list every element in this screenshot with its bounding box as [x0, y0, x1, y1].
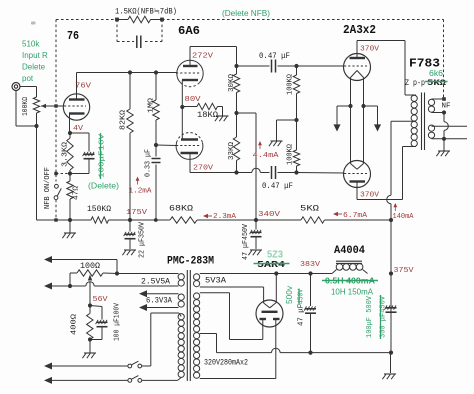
node cathode bottom / NFB inject: [68, 171, 72, 175]
potentiometer VR1 100K: [33, 97, 39, 113]
svg-text:PMC-283M: PMC-283M: [167, 256, 214, 268]
wire lower plate to OPT: [357, 199, 403, 201]
node 175V: [128, 218, 132, 222]
svg-text:375V: 375V: [394, 267, 414, 275]
transformer PT 6.3V winding: [178, 294, 184, 300]
resistor R8 1M: [153, 100, 159, 120]
svg-text:pot: pot: [22, 74, 34, 83]
svg-text:68KΩ: 68KΩ: [169, 206, 193, 214]
wire HV top to left plate: [200, 292, 230, 294]
resistor R9 82K: [129, 73, 131, 110]
wire 6.3V top lead: [139, 290, 147, 297]
label current 4.4mA (red): [259, 142, 261, 149]
tube 6A6 upper grid: [176, 72, 200, 74]
capacitor cathode bypass (deleted): [84, 153, 95, 155]
svg-text:76V: 76V: [75, 83, 92, 91]
ground speaker common: [443, 139, 445, 151]
rectifier cathode bar: [262, 311, 278, 313]
tube V5 rectifier envelope: [256, 300, 283, 327]
wire speaker output common: [432, 138, 468, 140]
node 270V bottom: [234, 170, 238, 174]
svg-text:383V: 383V: [300, 261, 320, 269]
svg-text:510k: 510k: [22, 40, 40, 49]
ground under 18K: [222, 107, 224, 116]
resistor R-NFB 1.5K: [117, 19, 128, 21]
tube 2A3 lower grid: [344, 173, 367, 175]
potentiometer VR2 100 ohm hum balance: [70, 272, 77, 274]
stray mark: [31, 22, 36, 25]
svg-text:47Ω: 47Ω: [73, 185, 81, 200]
wire 2.5V bottom lead / line B with hop: [44, 283, 52, 290]
node first filter cap bottom: [308, 351, 312, 355]
op tube V1 76 envelope: [63, 94, 89, 120]
svg-text:NF: NF: [442, 103, 451, 111]
tube 2A3 upper filament: [351, 71, 358, 78]
wire pot bottom to ground rail: [36, 126, 38, 220]
ground bias network: [89, 340, 91, 353]
resistor R2 3.3K cathode: [69, 133, 71, 138]
wire grid network 1M / 0.33uF: [155, 73, 157, 101]
node 2A3 lower grid: [294, 170, 298, 174]
label current 1.2mA (red): [137, 178, 139, 185]
svg-text:10H 150mA: 10H 150mA: [331, 287, 373, 297]
wire NF winding top to NFB line: [432, 98, 445, 100]
node pot bottom: [34, 124, 38, 128]
resistor R13 100K lower grid leak: [293, 150, 299, 166]
svg-text:100KΩ: 100KΩ: [287, 143, 295, 165]
svg-text:270V: 270V: [193, 165, 213, 173]
transformer PT AC primary winding: [178, 314, 184, 320]
svg-text:1MΩ: 1MΩ: [148, 97, 156, 113]
transformer PT 5V winding: [194, 274, 200, 280]
transformer OPT primary winding: [411, 95, 417, 101]
wire filament supply left arrow: [337, 105, 351, 107]
node 0.33uF to rail: [154, 218, 158, 222]
wire jack ground and pot bottom: [15, 91, 17, 127]
svg-text:6k6: 6k6: [429, 69, 444, 78]
svg-text:370V: 370V: [360, 192, 379, 200]
node 1M top: [154, 70, 158, 74]
transformer PT 2.5V winding: [178, 274, 184, 280]
node hum pot right: [115, 271, 119, 275]
wire jack to pot: [20, 86, 37, 88]
wire 6.3V bottom lead: [139, 304, 147, 311]
svg-text:(Delete NFB): (Delete NFB): [222, 9, 270, 18]
wire lower cathode to 270V node: [189, 153, 191, 173]
input jack J1: [12, 83, 20, 91]
tube V4 2A3 lower envelope: [344, 161, 371, 188]
node coupling upper: [234, 64, 238, 68]
ground under 47 ohm: [69, 220, 71, 233]
tube 2A3 lower plate: [350, 180, 366, 182]
svg-text:100Ω: 100Ω: [80, 263, 100, 271]
svg-text:30KΩ: 30KΩ: [228, 73, 236, 92]
node 2A3 upper grid: [294, 64, 298, 68]
svg-text:0.47 μF: 0.47 μF: [262, 183, 293, 191]
svg-text:76: 76: [67, 29, 79, 43]
wire hop and capacitor C6 0.47uF lower: [237, 172, 252, 174]
wire B+ 375V vertical: [390, 121, 392, 195]
svg-text:0.33 μF: 0.33 μF: [145, 149, 153, 177]
node NFB resistor right: [160, 18, 164, 22]
node 30K/33K junction: [234, 111, 238, 115]
svg-text:NFB ON/OFF: NFB ON/OFF: [44, 167, 52, 209]
transformer PT core: [186, 270, 188, 381]
tube 6A6 upper cathode: [182, 79, 198, 81]
svg-text:150KΩ: 150KΩ: [87, 206, 111, 214]
svg-text:175V: 175V: [126, 209, 148, 217]
svg-text:5KΩ: 5KΩ: [300, 206, 319, 214]
label current 140mA (red): [394, 204, 396, 211]
wire cathode node to bypass cap: [70, 132, 89, 134]
wire 76 plate to 6A6 grid rail: [77, 72, 178, 74]
svg-text:1.2mA: 1.2mA: [129, 188, 152, 196]
resistor R7 18K: [182, 106, 197, 108]
svg-text:18KΩ: 18KΩ: [197, 112, 218, 120]
tube 2A3 lower filament: [351, 164, 358, 170]
capacitor C3 47uF450V: [255, 220, 257, 230]
wire pot wiper to grid: [41, 105, 64, 107]
svg-text:1.5KΩ(NFB≒7dB): 1.5KΩ(NFB≒7dB): [115, 9, 177, 17]
svg-text:6.7mA: 6.7mA: [343, 212, 367, 220]
ground under 22uF: [124, 249, 136, 251]
svg-text:320V280mAx2: 320V280mAx2: [204, 360, 248, 368]
label current 6.7mA (red): [334, 213, 342, 215]
svg-text:Input R: Input R: [22, 51, 48, 60]
wire 340V feed down to rail: [237, 112, 257, 114]
svg-text:22 μF350V: 22 μF350V: [139, 221, 147, 258]
node NFB on grid wire: [54, 104, 57, 107]
node pot left to line B: [68, 284, 72, 288]
capacitor C-NFB parallel (dashed box): [116, 20, 118, 42]
svg-text:100 μF100V: 100 μF100V: [114, 302, 122, 341]
rectifier filament: [264, 303, 270, 308]
svg-text:100KΩ: 100KΩ: [22, 96, 30, 116]
node NFB to ground rail: [54, 218, 57, 221]
wire filament supply right arrow: [364, 105, 378, 107]
wire 2.5V top lead / hum pot line A: [46, 259, 117, 261]
wire AC line 1 with switch: [44, 363, 52, 370]
svg-text:2.5V5A: 2.5V5A: [141, 279, 170, 287]
transformer OPT NF winding: [428, 99, 434, 105]
node NF top (square): [442, 97, 446, 101]
wire AC line1 up to primary top: [150, 313, 152, 366]
svg-text:340V: 340V: [258, 211, 281, 219]
svg-text:400Ω: 400Ω: [71, 313, 79, 335]
node 100K midpoint: [294, 118, 298, 122]
node rectifier filament B+ takeoff: [274, 271, 278, 275]
node filament left: [348, 104, 352, 108]
switch NFB on/off: [55, 184, 59, 188]
capacitor C8 filter 100uF (at 375V): [386, 307, 397, 309]
svg-text:47 μF: 47 μF: [298, 304, 306, 326]
node NFB resistor left: [115, 18, 119, 22]
svg-text:6A6: 6A6: [178, 24, 200, 38]
capacitor C9 100uF100V: [90, 306, 102, 307]
svg-text:100μF 500V: 100μF 500V: [366, 295, 374, 338]
node 400 ohm bottom: [88, 337, 92, 341]
tube 76 grid: [64, 105, 86, 107]
svg-text:(Delete): (Delete): [88, 182, 119, 191]
resistor R4 150K: [91, 217, 109, 223]
tube V2b 6A6 lower envelope: [176, 143, 203, 160]
svg-text:500v: 500v: [285, 286, 294, 304]
tube 6A6 lower grid: [176, 145, 201, 147]
svg-text:5V3A: 5V3A: [205, 278, 226, 286]
resistor R12 100K upper grid leak: [296, 66, 298, 75]
svg-text:5KΩ: 5KΩ: [427, 79, 446, 88]
capacitor C4 0.33uF: [155, 145, 157, 157]
wire upper cathode down to lower plate: [181, 80, 183, 140]
svg-text:272V: 272V: [192, 53, 214, 61]
svg-text:A4004: A4004: [334, 245, 365, 257]
wire NFB dashed feedback line top: [56, 19, 117, 21]
svg-text:0.47 μF: 0.47 μF: [259, 53, 290, 61]
node lower grid: [154, 143, 158, 147]
wire 5V winding top / B+ rail: [200, 273, 332, 275]
rectifier plate right: [273, 318, 280, 320]
ground under 47uF450V: [250, 249, 262, 251]
resistor R3 47 ohm: [67, 181, 73, 199]
transformer OPT core: [421, 93, 423, 151]
pot VR2 wiper arrow: [89, 282, 91, 306]
tube V2a 6A6 upper envelope: [177, 60, 203, 83]
node 47ohm bottom: [68, 218, 72, 222]
capacitor C2 22uF350V: [129, 220, 131, 232]
node B+ bottom: [389, 351, 393, 355]
svg-text:5AR4: 5AR4: [257, 259, 285, 270]
resistor R11 33K: [233, 137, 239, 161]
svg-text:100KΩ: 100KΩ: [287, 73, 295, 95]
svg-text:100μF16V: 100μF16V: [99, 133, 107, 178]
node 80V cathode: [180, 105, 184, 109]
tube 76 cathode: [69, 112, 85, 114]
wire 272V down right column: [236, 47, 238, 67]
tube 2A3 upper grid: [344, 65, 367, 67]
wire grids to 2A3: [297, 65, 345, 67]
resistor R5 68K: [170, 217, 197, 223]
wire 2A3 filament legs: [350, 78, 352, 164]
tube 76 plate: [69, 98, 85, 100]
svg-text:33KΩ: 33KΩ: [228, 141, 236, 160]
wire AC line2 to primary bottom: [142, 379, 178, 381]
node NF bottom: [442, 110, 446, 114]
resistor R6 5K: [301, 217, 325, 223]
wire B- bottom rail with hop: [200, 333, 217, 335]
svg-text:2.3mA: 2.3mA: [213, 213, 236, 221]
node rail to B+ vertical: [389, 218, 393, 222]
svg-text:370V: 370V: [360, 46, 379, 54]
node 340V: [254, 218, 258, 222]
transformer OPT speaker winding: [428, 125, 434, 131]
svg-text:140mA: 140mA: [393, 213, 415, 221]
wire speaker output hot: [432, 125, 468, 127]
ground B- rail end: [390, 353, 392, 373]
ground between 100K resistors: [277, 119, 297, 121]
svg-text:3.3KΩ: 3.3KΩ: [62, 141, 70, 167]
rectifier plate left: [260, 318, 267, 320]
svg-text:Z p-p: Z p-p: [405, 80, 425, 88]
wire upper plate to OPT: [357, 40, 405, 42]
wire AC line 2 with switch: [44, 377, 52, 384]
resistor R10 30K: [236, 66, 238, 74]
node choke out 375V: [389, 271, 393, 275]
node 56V: [88, 303, 92, 307]
node first filter cap: [308, 271, 312, 275]
tube V3 2A3 upper envelope: [344, 54, 371, 81]
wire HV bottom to right plate: [275, 319, 277, 379]
tube 6A6 lower cathode: [181, 152, 199, 154]
wire to lower grid: [156, 144, 176, 147]
svg-text:4.4mA: 4.4mA: [253, 152, 279, 160]
wire ground/supply rail: [37, 219, 92, 221]
node cathode 4V: [68, 131, 72, 135]
capacitor C7 filter 47uF (500V): [310, 274, 312, 307]
svg-text:4V: 4V: [73, 125, 83, 133]
svg-text:6.3V3A: 6.3V3A: [146, 298, 172, 306]
resistor R14 400 ohm bias: [89, 306, 91, 314]
node 82K top: [128, 70, 132, 74]
choke L1 A4004: [336, 260, 362, 262]
wire 6A6 plate to 272V rail: [190, 46, 237, 48]
node filament right: [361, 104, 365, 108]
tube 6A6 lower plate: [181, 138, 198, 140]
svg-text:Delete: Delete: [22, 63, 46, 72]
wire NFB dash-dot to cathode node: [56, 173, 70, 175]
capacitor C5 0.47uF upper: [237, 65, 270, 67]
transformer PT HV winding: [194, 293, 200, 299]
svg-text:2A3x2: 2A3x2: [343, 23, 376, 37]
wire OPT center tap to B+: [391, 120, 416, 122]
tube 6A6 upper plate: [183, 65, 198, 67]
svg-text:82KΩ: 82KΩ: [120, 109, 128, 130]
wire NF bottom down with hop: [432, 112, 445, 114]
label current 2.3mA (red): [204, 215, 212, 217]
wire 5V winding bottom to filament: [200, 286, 264, 288]
switch SW1 mains: [128, 364, 132, 368]
switch SW2 mains: [128, 379, 132, 383]
tube 2A3 upper plate: [350, 57, 366, 59]
svg-text:56V: 56V: [93, 296, 108, 304]
node speaker common: [442, 137, 446, 141]
